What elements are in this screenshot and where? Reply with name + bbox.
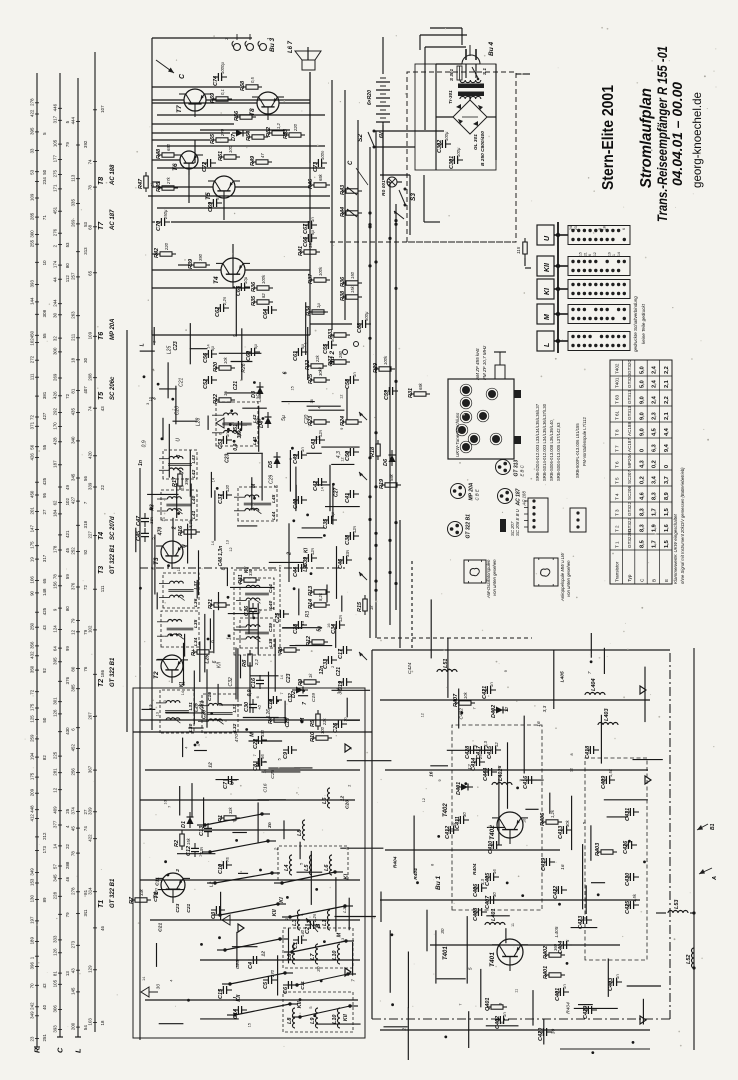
svg-text:1n: 1n — [310, 217, 315, 222]
svg-text:C46: C46 — [338, 558, 344, 569]
svg-text:2: 2 — [274, 847, 280, 851]
svg-text:220: 220 — [164, 242, 169, 251]
svg-text:C410: C410 — [488, 841, 494, 854]
svg-text:430: 430 — [65, 727, 70, 735]
capacitor C402 — [499, 1016, 501, 1024]
svg-text:C426: C426 — [623, 840, 629, 854]
bus junction — [374, 532, 377, 535]
antenna jack — [495, 365, 505, 379]
index tick — [58, 143, 62, 145]
svg-text:C37: C37 — [218, 493, 224, 504]
index tick — [35, 545, 39, 547]
svg-text:R25: R25 — [308, 373, 314, 384]
wire — [469, 96, 471, 100]
svg-text:1,7: 1,7 — [652, 540, 658, 548]
wire — [295, 485, 297, 507]
index tick — [35, 425, 39, 427]
wire — [297, 871, 323, 873]
svg-text:14: 14 — [320, 487, 324, 491]
svg-text:156: 156 — [53, 581, 58, 589]
contact stub — [285, 972, 293, 974]
wire — [218, 592, 220, 610]
resistor R16 — [184, 530, 196, 534]
mains wire — [461, 28, 463, 45]
svg-text:197: 197 — [30, 916, 35, 924]
svg-text:R22: R22 — [213, 394, 219, 404]
svg-text:R53: R53 — [283, 129, 289, 139]
svg-text:74: 74 — [88, 159, 93, 164]
resistor R8 — [284, 648, 296, 652]
capacitor C413 — [562, 826, 564, 834]
index tick — [35, 626, 39, 628]
svg-text:R10: R10 — [310, 732, 316, 742]
wire — [237, 525, 257, 527]
wire — [168, 424, 170, 478]
wire — [179, 786, 181, 816]
wire — [193, 671, 195, 725]
rail — [200, 959, 360, 961]
resistor R22 — [219, 398, 231, 402]
rail — [140, 829, 300, 831]
junction — [566, 962, 569, 965]
svg-text:2,1: 2,1 — [664, 380, 670, 388]
svg-text:4,4: 4,4 — [664, 427, 670, 436]
switch wire — [220, 904, 278, 915]
svg-text:C5: C5 — [263, 981, 269, 989]
IF transformer L42/L43 — [163, 450, 197, 479]
bus junction — [388, 237, 391, 240]
wire — [166, 712, 205, 714]
svg-text:280: 280 — [338, 350, 343, 359]
svg-text:24: 24 — [569, 226, 573, 230]
tuner contact — [479, 412, 487, 420]
index tick — [35, 984, 39, 986]
wire — [152, 99, 184, 101]
svg-text:UKW-Tuneranschluss: UKW-Tuneranschluss — [455, 412, 460, 457]
tuner tab 1 — [514, 390, 521, 398]
svg-text:D5: D5 — [268, 460, 274, 468]
bus junction — [368, 518, 371, 521]
svg-text:451: 451 — [53, 206, 58, 214]
wire — [152, 221, 155, 223]
resistor R401 — [549, 973, 561, 977]
wire — [310, 851, 312, 905]
index tick — [35, 776, 39, 778]
junction — [213, 881, 216, 884]
svg-text:5: 5 — [278, 758, 282, 760]
index tick — [35, 131, 39, 133]
capacitor C422 — [557, 886, 559, 894]
svg-text:L34: L34 — [193, 637, 199, 646]
capacitor C59 — [388, 387, 390, 395]
svg-text:Typ: Typ — [627, 574, 632, 582]
svg-text:175: 175 — [30, 703, 35, 711]
index tick — [58, 895, 62, 897]
wire — [295, 644, 320, 646]
rail — [145, 769, 360, 771]
speaker Bu3 — [302, 60, 315, 70]
capacitor C7 — [227, 776, 229, 784]
svg-text:30: 30 — [53, 312, 58, 317]
svg-text:178: 178 — [53, 545, 58, 553]
wire — [308, 409, 344, 411]
svg-text:0,9: 0,9 — [247, 689, 253, 696]
svg-text:5µ: 5µ — [253, 344, 258, 349]
coil L9 — [316, 1008, 319, 1028]
svg-text:12: 12 — [593, 252, 597, 256]
svg-text:220: 220 — [293, 123, 298, 132]
svg-text:22: 22 — [65, 843, 70, 848]
svg-text:257: 257 — [71, 272, 76, 280]
svg-text:175: 175 — [30, 772, 35, 780]
capacitor C16 — [256, 683, 264, 685]
svg-text:55: 55 — [42, 444, 47, 449]
switch wire — [235, 1004, 290, 1015]
junction — [556, 287, 560, 291]
resistor R48 — [162, 153, 174, 157]
junction — [143, 375, 146, 378]
svg-text:5,0: 5,0 — [639, 366, 645, 374]
transistor T4 — [221, 258, 245, 282]
svg-text:393: 393 — [53, 1025, 58, 1033]
contact stub — [290, 1003, 298, 1005]
svg-text:FM-Vorstufenspule L7/112: FM-Vorstufenspule L7/112 — [582, 417, 587, 466]
svg-text:keine Teile gedruckt: keine Teile gedruckt — [641, 303, 646, 344]
svg-text:A: A — [712, 876, 718, 881]
coil L6 — [328, 788, 331, 808]
contact stub — [346, 940, 354, 942]
svg-text:C29: C29 — [201, 710, 207, 719]
wire — [282, 401, 315, 403]
index tick — [76, 178, 80, 180]
long wire — [357, 120, 359, 328]
svg-text:4,5: 4,5 — [652, 428, 658, 436]
wire — [578, 1004, 593, 1006]
svg-text:74: 74 — [88, 406, 93, 411]
wire — [288, 928, 290, 963]
svg-text:5µ: 5µ — [210, 346, 215, 351]
antenna arrow B — [306, 918, 318, 932]
svg-text:GT 322 B1: GT 322 B1 — [466, 514, 472, 539]
svg-text:C56: C56 — [203, 352, 209, 363]
capacitor C45 — [141, 536, 149, 538]
svg-text:40: 40 — [42, 1004, 47, 1009]
wire — [173, 420, 198, 422]
svg-text:100µ: 100µ — [456, 147, 461, 157]
index tick — [35, 818, 39, 820]
svg-text:C16: C16 — [207, 692, 213, 701]
capacitor C70 — [160, 218, 162, 226]
resistor R407 — [459, 701, 471, 705]
wire — [340, 847, 383, 849]
capacitor C9 — [287, 746, 289, 754]
switch wire — [300, 1006, 350, 1017]
capacitor C43 — [315, 436, 317, 444]
svg-text:194: 194 — [30, 752, 35, 760]
svg-text:92: 92 — [42, 668, 47, 673]
svg-text:FM ZF 10,7 MHz: FM ZF 10,7 MHz — [482, 345, 487, 380]
transistor T401 — [497, 939, 523, 965]
wire — [200, 1018, 239, 1020]
U arrow — [359, 412, 367, 420]
svg-text:R404: R404 — [413, 868, 419, 880]
svg-text:6×R20: 6×R20 — [367, 90, 373, 105]
index tick — [58, 107, 62, 109]
wire — [159, 1023, 184, 1025]
wire — [532, 990, 534, 1026]
transistor T2 — [161, 655, 183, 677]
junction — [628, 840, 631, 843]
wire — [257, 802, 259, 842]
junction — [167, 564, 170, 567]
wire — [171, 221, 310, 223]
svg-text:AC187: AC187 — [627, 438, 632, 452]
svg-text:79: 79 — [65, 142, 70, 147]
svg-text:Rö 001: Rö 001 — [381, 180, 387, 196]
svg-text:72: 72 — [30, 689, 35, 694]
index tick — [58, 158, 62, 160]
index tick — [76, 337, 80, 339]
index tick — [76, 688, 80, 690]
svg-text:R55: R55 — [210, 133, 216, 144]
wire — [235, 186, 310, 188]
svg-text:14: 14 — [212, 478, 216, 482]
svg-text:0,2: 0,2 — [652, 460, 658, 468]
long wire — [344, 90, 346, 320]
index tick — [76, 969, 80, 971]
svg-text:225: 225 — [53, 751, 58, 759]
svg-text:T 1: T 1 — [615, 541, 620, 548]
svg-text:390: 390 — [198, 253, 203, 261]
wire — [480, 969, 482, 1007]
svg-text:49: 49 — [65, 485, 70, 490]
svg-text:2: 2 — [331, 666, 335, 668]
wire — [294, 767, 312, 769]
index tick — [58, 939, 62, 941]
capacitor C26 — [337, 720, 339, 728]
svg-text:GT320: GT320 — [627, 360, 632, 374]
index tick — [35, 113, 39, 115]
svg-text:22k: 22k — [322, 717, 327, 726]
svg-text:45: 45 — [65, 548, 70, 553]
pinout rect 5pin — [528, 498, 548, 532]
resistor R59 — [216, 97, 228, 101]
svg-text:T 2: T 2 — [615, 525, 620, 532]
svg-text:7: 7 — [280, 692, 284, 694]
svg-text:111: 111 — [100, 585, 105, 592]
svg-text:376: 376 — [71, 582, 76, 590]
junction — [216, 487, 219, 490]
wire — [204, 614, 206, 673]
capacitor C4 — [252, 956, 254, 964]
svg-text:C430: C430 — [625, 873, 631, 886]
resistor R36 — [346, 281, 358, 285]
svg-text:9,0: 9,0 — [639, 396, 645, 404]
capacitor C56 — [207, 350, 209, 358]
index tick — [35, 1006, 39, 1008]
wire — [152, 253, 158, 255]
capacitor C301 — [453, 156, 455, 164]
rail — [385, 769, 648, 771]
junction — [157, 383, 160, 386]
capacitor C420 — [542, 1028, 544, 1036]
capacitor C421 — [486, 686, 488, 694]
wire — [475, 64, 477, 78]
wire — [191, 783, 193, 816]
svg-text:C20: C20 — [345, 800, 351, 809]
wire — [387, 181, 390, 183]
svg-text:C405: C405 — [485, 872, 491, 886]
svg-text:R2: R2 — [174, 840, 180, 847]
potentiometer arrow — [347, 187, 357, 195]
svg-text:C23: C23 — [270, 769, 276, 778]
index tick — [58, 607, 62, 609]
wire — [152, 269, 221, 271]
capacitor C429 — [587, 1006, 589, 1014]
IF transformer L36/L37 — [163, 573, 199, 608]
capacitor C30 — [249, 707, 257, 709]
svg-text:T402: T402 — [443, 803, 449, 817]
svg-text:444: 444 — [71, 117, 76, 125]
resistor R29 — [379, 367, 391, 371]
svg-text:C44: C44 — [293, 567, 299, 577]
svg-text:L10: L10 — [332, 1015, 338, 1024]
svg-text:S 301: S 301 — [449, 69, 454, 81]
wire — [207, 416, 209, 430]
power supply dashed box — [407, 72, 516, 242]
junction — [590, 660, 593, 663]
resistor R402 — [549, 953, 561, 957]
rail — [380, 699, 650, 701]
coil L8 — [293, 944, 296, 964]
capacitor C15 — [222, 986, 224, 994]
svg-text:12n: 12n — [352, 525, 357, 533]
index tick — [76, 144, 80, 146]
wire — [341, 596, 343, 612]
svg-text:5: 5 — [497, 765, 503, 768]
svg-text:C2: C2 — [305, 927, 311, 934]
resistor R25 — [314, 378, 326, 382]
svg-text:1,9: 1,9 — [652, 524, 658, 532]
switch bus — [557, 222, 559, 353]
capacitor C50 — [349, 448, 351, 456]
U arrow — [359, 652, 367, 660]
svg-text:105: 105 — [53, 139, 58, 147]
wire — [235, 647, 237, 699]
wire — [257, 603, 259, 655]
switch wafer L — [568, 332, 630, 351]
index tick — [58, 513, 62, 515]
svg-text:339: 339 — [88, 807, 93, 815]
connector Bu2 — [343, 350, 348, 355]
capacitor C62 — [219, 304, 221, 312]
wire — [309, 300, 311, 335]
resistor R12 — [312, 640, 324, 644]
svg-text:Bu 1: Bu 1 — [435, 876, 442, 890]
svg-text:L9: L9 — [310, 1017, 316, 1024]
antenna arrow A1 — [697, 824, 708, 830]
index tick — [35, 301, 39, 303]
capacitor C14 — [237, 1006, 239, 1014]
index tick — [93, 769, 97, 771]
svg-text:56: 56 — [83, 476, 88, 481]
svg-text:32k: 32k — [228, 806, 233, 814]
svg-text:T3: T3 — [153, 557, 160, 565]
wire — [399, 520, 401, 648]
rail T-row — [126, 330, 128, 732]
svg-text:L: L — [140, 343, 146, 346]
svg-text:SRB-S014-012.003 L34/L35/L36: SRB-S014-012.003 L34/L35/L36/L37/L30 — [542, 403, 547, 481]
wire — [152, 139, 210, 141]
svg-text:R: R — [33, 1047, 42, 1053]
wire — [571, 796, 573, 850]
resistor R13 — [314, 590, 326, 594]
index tick — [58, 210, 62, 212]
wire — [468, 1011, 470, 1048]
svg-text:12: 12 — [229, 547, 233, 551]
index tick — [93, 891, 97, 893]
ground — [345, 744, 351, 752]
index tick — [76, 390, 80, 392]
svg-text:R59: R59 — [210, 92, 216, 103]
svg-text:C6: C6 — [283, 986, 289, 994]
svg-text:C429: C429 — [583, 1005, 589, 1019]
svg-text:R404: R404 — [472, 863, 478, 875]
svg-text:18: 18 — [71, 357, 76, 362]
resistor R36 — [257, 286, 269, 290]
index tick — [35, 416, 39, 418]
svg-text:GT320: GT320 — [627, 374, 632, 388]
rail — [145, 999, 358, 1001]
bus junction — [394, 287, 397, 290]
bus junction — [374, 485, 377, 488]
svg-text:R47: R47 — [138, 178, 144, 189]
svg-text:13: 13 — [182, 682, 186, 686]
wire — [261, 771, 300, 773]
contact stub — [348, 973, 356, 975]
svg-text:R13: R13 — [308, 586, 314, 596]
svg-text:251: 251 — [42, 1034, 47, 1042]
wire — [216, 779, 239, 781]
svg-text:252: 252 — [71, 547, 76, 555]
capacitor C68 — [361, 320, 363, 328]
battery 6xR20 — [376, 121, 390, 123]
diode D6 — [389, 455, 396, 462]
svg-text:109: 109 — [30, 193, 35, 201]
svg-text:C49: C49 — [293, 453, 299, 464]
svg-text:C39: C39 — [268, 623, 274, 632]
coil L10 — [338, 1008, 341, 1028]
junction — [444, 1036, 447, 1039]
index tick — [58, 188, 62, 190]
capacitor C13 — [204, 831, 212, 833]
wire — [219, 352, 262, 354]
junction — [286, 896, 289, 899]
junction — [556, 312, 560, 316]
svg-text:5: 5 — [309, 1006, 313, 1008]
index tick — [93, 588, 97, 590]
resistor R23 — [314, 420, 326, 424]
wire — [346, 698, 348, 718]
svg-text:33k: 33k — [139, 888, 144, 896]
power supply inner box — [415, 64, 496, 170]
junction — [556, 264, 560, 268]
diode D2 — [296, 687, 303, 694]
svg-text:C55: C55 — [323, 343, 329, 354]
rail 2 — [151, 330, 153, 730]
wire — [147, 493, 178, 495]
svg-text:3: 3 — [176, 455, 182, 458]
